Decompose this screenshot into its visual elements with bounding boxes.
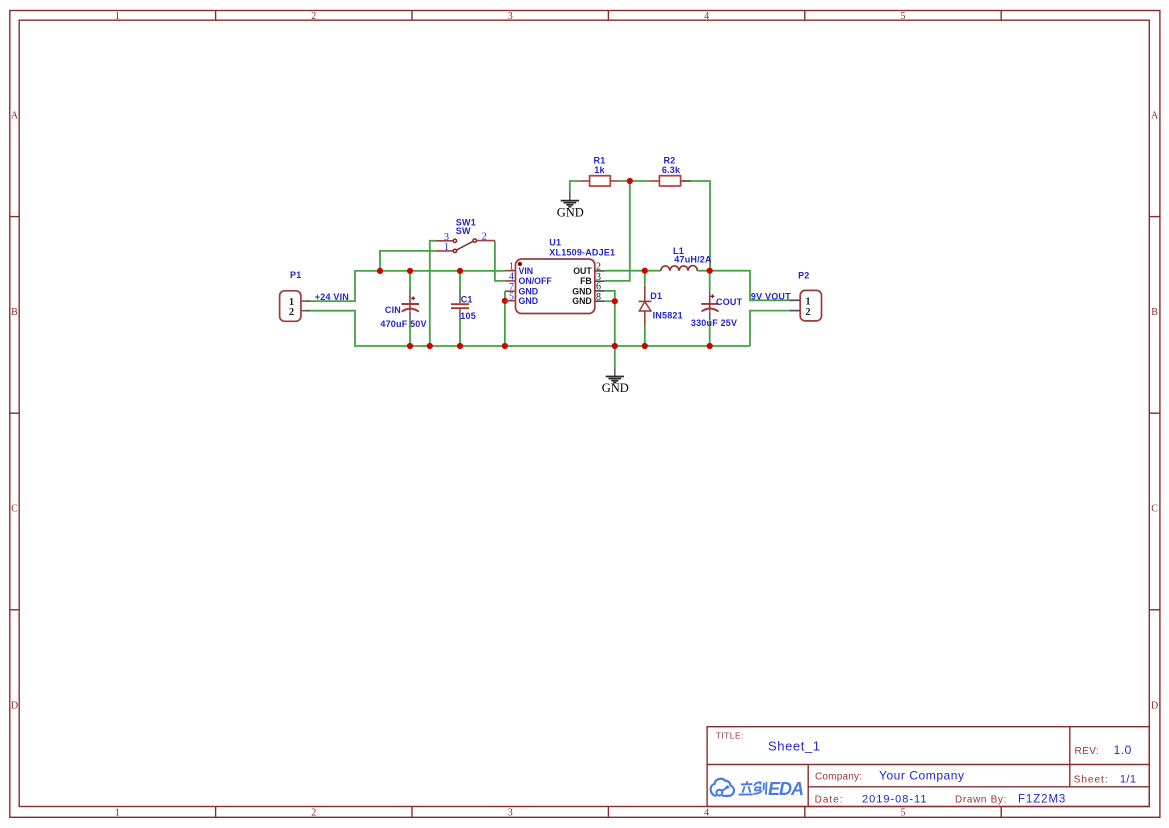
U1 pin numbers 2,3,6,8 xyxy=(596,262,601,303)
svg-text:Drawn By:: Drawn By: xyxy=(955,794,1007,805)
U1 pin names OUT/FB/GND/GND xyxy=(572,266,592,306)
svg-text:105: 105 xyxy=(460,311,476,321)
svg-text:3: 3 xyxy=(508,808,513,819)
svg-text:6.3k: 6.3k xyxy=(662,165,681,175)
node rail / D1 bottom xyxy=(642,343,648,349)
wire P2 pin2 to bottom rail xyxy=(750,311,791,346)
node VIN rail / SW1 branch xyxy=(377,268,383,274)
svg-text:Company:: Company: xyxy=(815,772,862,783)
wire U1 GND pins 7,5 to bottom rail xyxy=(504,291,506,346)
svg-text:REV:: REV: xyxy=(1075,746,1100,757)
svg-text:SW: SW xyxy=(456,226,471,236)
node OUT / D1 xyxy=(642,268,648,274)
wire SW1 pin2 to U1 ON/OFF xyxy=(495,241,505,281)
node rail / GND symbol xyxy=(612,343,618,349)
svg-text:COUT: COUT xyxy=(716,297,743,307)
svg-text:D: D xyxy=(1151,700,1158,711)
svg-text:2019-08-11: 2019-08-11 xyxy=(862,793,927,805)
svg-text:U1: U1 xyxy=(549,238,561,248)
node rail / U1 gnd left xyxy=(502,343,508,349)
wire R2 right down to L1 out node xyxy=(681,181,710,271)
frame row letters right xyxy=(1151,111,1159,712)
svg-text:F1Z2M3: F1Z2M3 xyxy=(1018,793,1066,805)
wire SW1 pin3 to bottom rail xyxy=(430,241,436,346)
svg-text:330uF 25V: 330uF 25V xyxy=(691,318,737,328)
svg-text:2: 2 xyxy=(805,307,810,318)
svg-text:3: 3 xyxy=(508,11,513,22)
diode D1 xyxy=(639,286,683,326)
svg-text:GND: GND xyxy=(557,205,584,219)
capacitor COUT xyxy=(691,292,743,328)
svg-text:+24 VIN: +24 VIN xyxy=(315,292,349,302)
CIRCUIT xyxy=(280,156,822,396)
svg-text:Sheet:: Sheet: xyxy=(1074,775,1109,786)
svg-text:D1: D1 xyxy=(650,291,662,301)
node R1-R2 junction xyxy=(627,178,633,184)
cloud icon xyxy=(711,779,734,796)
svg-text:GND: GND xyxy=(572,296,592,306)
svg-text:5: 5 xyxy=(509,292,514,303)
svg-text:CIN: CIN xyxy=(385,305,401,315)
node rail / CIN bottom xyxy=(407,343,413,349)
wire D1 bottom xyxy=(644,326,646,347)
svg-text:EDA: EDA xyxy=(768,779,803,799)
svg-text:C: C xyxy=(11,504,18,515)
wire L1 to P2 pin1 xyxy=(697,271,791,301)
capacitor C1 xyxy=(451,291,476,321)
svg-text:B: B xyxy=(11,307,18,318)
node U1 pin5 xyxy=(502,298,508,304)
ground GND (bottom) xyxy=(602,366,629,395)
svg-text:R1: R1 xyxy=(594,156,606,166)
svg-text:8: 8 xyxy=(596,292,601,303)
svg-text:Sheet_1: Sheet_1 xyxy=(768,739,821,754)
node rail / C1 bottom xyxy=(457,343,463,349)
svg-text:4: 4 xyxy=(704,808,709,819)
svg-text:FB: FB xyxy=(580,276,592,286)
svg-text:OUT: OUT xyxy=(573,266,592,276)
switch SW1 xyxy=(436,217,495,253)
立 character xyxy=(739,781,753,794)
svg-text:1/1: 1/1 xyxy=(1120,774,1137,786)
svg-text:2: 2 xyxy=(289,307,294,318)
wire D1 top xyxy=(644,271,646,286)
svg-text:9V VOUT: 9V VOUT xyxy=(751,291,791,301)
svg-text:P1: P1 xyxy=(290,270,301,280)
frame column numbers bottom xyxy=(115,808,906,819)
IC U1 xyxy=(505,238,615,314)
svg-text:1.0: 1.0 xyxy=(1114,743,1132,757)
svg-text:47uH/2A: 47uH/2A xyxy=(674,255,712,265)
node U1 pin8 xyxy=(612,298,618,304)
wire R1 left to GND xyxy=(570,181,580,191)
svg-text:TITLE:: TITLE: xyxy=(716,731,744,741)
wire R1 right to R2 left xyxy=(620,180,649,182)
wire CIN bottom xyxy=(409,320,411,346)
wire P1 pin2 to bottom rail xyxy=(306,311,750,346)
wire SW1 pin1 branch xyxy=(380,251,436,271)
wire P1 pin1 to VIN rail xyxy=(306,271,505,301)
svg-text:470uF 50V: 470uF 50V xyxy=(380,319,426,329)
svg-text:GND: GND xyxy=(519,296,539,306)
ground GND (R1) xyxy=(557,191,584,219)
svg-text:5: 5 xyxy=(901,11,906,22)
resistor R1 xyxy=(580,156,620,187)
svg-text:GND: GND xyxy=(572,286,592,296)
svg-text:XL1509-ADJE1: XL1509-ADJE1 xyxy=(549,247,615,257)
svg-text:2: 2 xyxy=(482,232,487,243)
wire U1 pin8 stub join xyxy=(604,300,614,302)
svg-text:5: 5 xyxy=(901,808,906,819)
svg-text:GND: GND xyxy=(602,381,629,395)
wire U1 OUT to L1 xyxy=(604,270,660,272)
wire COUT top xyxy=(709,271,711,292)
svg-text:IN5821: IN5821 xyxy=(653,311,683,321)
wire C1 bottom xyxy=(459,320,461,346)
node rail / SW3 xyxy=(427,343,433,349)
svg-text:2: 2 xyxy=(311,11,316,22)
node rail / COUT bottom xyxy=(707,343,713,349)
svg-text:ON/OFF: ON/OFF xyxy=(519,276,553,286)
svg-text:1: 1 xyxy=(115,11,120,22)
svg-text:R2: R2 xyxy=(664,156,676,166)
title block lines xyxy=(707,727,1149,807)
U1 pin numbers 1,4,7,5 xyxy=(509,262,514,303)
frame column numbers top xyxy=(115,11,906,22)
frame row letters left xyxy=(11,111,19,712)
wire U1 GND pins 6,8 xyxy=(604,291,614,346)
svg-text:D: D xyxy=(11,700,18,711)
resistor R2 xyxy=(649,156,691,187)
svg-text:C: C xyxy=(1151,504,1158,515)
U1 pin names VIN/ON-OFF/GND/GND xyxy=(519,266,553,306)
EasyEDA logo xyxy=(711,779,803,799)
svg-text:1: 1 xyxy=(115,808,120,819)
node VIN rail / CIN xyxy=(407,268,413,274)
svg-text:B: B xyxy=(1151,307,1158,318)
svg-text:P2: P2 xyxy=(798,271,809,281)
inductor L1 xyxy=(661,246,712,271)
svg-text:Date:: Date: xyxy=(815,794,844,805)
创 character xyxy=(753,782,766,795)
svg-text:A: A xyxy=(1151,111,1159,122)
wire C1 top xyxy=(459,271,461,291)
svg-text:VIN: VIN xyxy=(519,266,534,276)
svg-text:Your Company: Your Company xyxy=(879,769,965,783)
svg-text:1k: 1k xyxy=(594,165,605,175)
wire R1R2 junction to U1 FB xyxy=(604,181,629,281)
svg-text:2: 2 xyxy=(311,808,316,819)
svg-text:GND: GND xyxy=(519,286,539,296)
svg-text:A: A xyxy=(11,111,19,122)
svg-text:1: 1 xyxy=(444,242,449,253)
connector P1 xyxy=(280,270,310,321)
node L1 / COUT xyxy=(707,268,713,274)
wire COUT bottom xyxy=(709,320,711,346)
connector P2 xyxy=(790,271,822,321)
capacitor CIN xyxy=(380,291,426,329)
wire bottom rail to GND symbol xyxy=(614,346,616,366)
node VIN rail / C1 xyxy=(457,268,463,274)
svg-text:C1: C1 xyxy=(461,295,473,305)
wire CIN top xyxy=(409,271,411,291)
svg-text:4: 4 xyxy=(704,11,709,22)
junction dots xyxy=(377,178,713,349)
